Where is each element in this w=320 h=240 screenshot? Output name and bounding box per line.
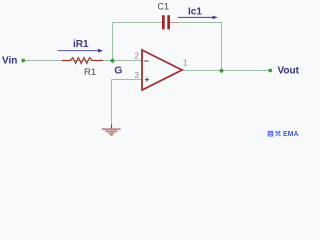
wire: Vin terminal to op-amp pin 2 (main input rail) [23,60,142,62]
wire: top rail left of C1 [112,22,162,24]
svg-text:1: 1 [183,59,188,68]
Vout terminal dot [268,69,272,73]
svg-text:3: 3 [135,71,140,80]
svg-text:G: G [114,65,122,77]
node G junction dot [110,58,115,63]
wire: op-amp output to Vout terminal [181,70,270,72]
svg-text:Vout: Vout [278,66,300,77]
wire: top rail right of C1, down to output junction [170,23,222,71]
svg-text:R1: R1 [84,67,96,78]
svg-text:C1: C1 [158,2,170,12]
ground [102,125,121,136]
current arrow Ic1 [178,16,218,20]
resistor R1 [62,58,103,64]
op-amp plus marker [145,78,149,82]
svg-text:iR1: iR1 [73,39,89,50]
capacitor C1 [162,15,178,29]
output junction dot [219,68,224,73]
svg-text:Ic1: Ic1 [188,7,202,18]
svg-text:EMA: EMA [283,131,299,138]
current arrow iR1 [58,49,104,53]
svg-text:2: 2 [135,52,140,61]
Vin terminal dot [21,59,25,63]
wire: op-amp pin 3 to ground [112,80,143,126]
wire: node G up to top rail [112,23,114,62]
svg-text:Vin: Vin [2,56,17,67]
watermark logo 百芯EMA [268,131,299,138]
op-amp minus marker [144,60,148,62]
op-amp U1 triangle [142,50,182,90]
